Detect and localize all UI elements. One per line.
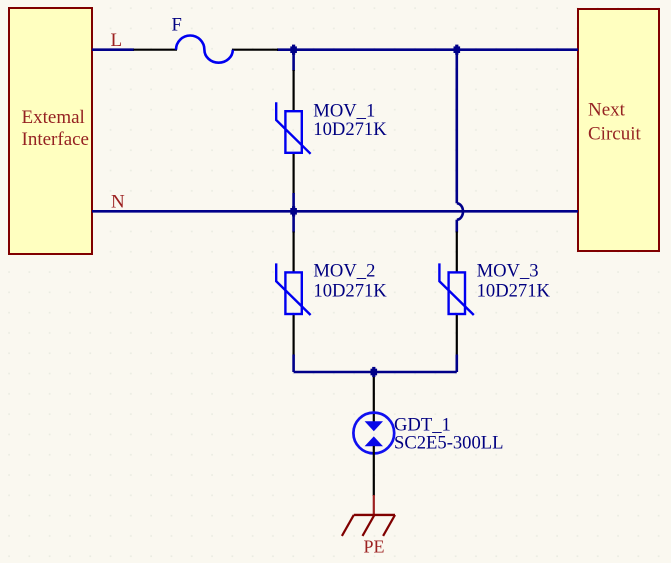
varistor MOV_3 body [439, 263, 473, 315]
vertical wire L-junction to MOV_1 [292, 50, 295, 71]
svg-text:L: L [111, 30, 123, 51]
svg-text:N: N [111, 192, 125, 213]
svg-text:MOV_2: MOV_2 [313, 260, 375, 281]
sheet part: Next Circuit block [578, 9, 659, 251]
GDT_1 pin top [373, 372, 375, 422]
svg-text:Next: Next [588, 100, 626, 121]
power port PE: bar [354, 514, 395, 516]
MOV_3 pin bottom [456, 314, 458, 356]
GDT_1 lower electrode [365, 436, 383, 446]
wire MOV_2 to bottom rail [292, 355, 295, 373]
wire N: left box to Next Circuit [92, 210, 578, 213]
junction (L, MOV_1) [290, 45, 297, 55]
wire MOV_3 to bottom rail [455, 355, 458, 373]
GDT_1 body [353, 413, 394, 454]
svg-text:Interface: Interface [22, 129, 90, 150]
svg-text:PE: PE [364, 536, 385, 556]
wire L: left box to fuse [92, 48, 134, 51]
MOV_2 pin top [293, 232, 295, 274]
svg-text:10D271K: 10D271K [477, 281, 551, 302]
GDT_1 pin bottom [373, 446, 375, 496]
svg-text:F: F [172, 15, 182, 36]
MOV_3 pin top [456, 232, 458, 274]
svg-text:SC2E5-300LL: SC2E5-300LL [394, 433, 504, 454]
sheet part: External Interface block [9, 8, 92, 254]
wire N-junction to MOV_2 [292, 211, 295, 232]
wire L: fuse to Next Circuit [277, 48, 578, 51]
svg-text:10D271K: 10D271K [313, 119, 387, 140]
wire MOV_1 to N [292, 193, 295, 211]
wire hop over N [457, 203, 463, 219]
MOV_1 pin bottom [293, 153, 295, 194]
varistor MOV_1 body [276, 102, 310, 154]
junction (L, MOV_3 branch) [454, 45, 461, 55]
junction (bottom rail, GDT) [371, 367, 378, 377]
vertical wire L-junction down to MOV_3 (with hop over N) [455, 50, 458, 204]
svg-text:MOV_1: MOV_1 [313, 100, 375, 121]
GDT_1 upper electrode [365, 421, 383, 431]
fuse F pins [134, 49, 178, 51]
fuse F body [176, 36, 233, 63]
bottom rail wire [294, 371, 457, 374]
MOV_2 pin bottom [293, 314, 295, 356]
svg-text:Extemal: Extemal [22, 107, 85, 128]
MOV_1 pin top [293, 70, 295, 112]
svg-text:10D271K: 10D271K [313, 281, 387, 302]
junction (N, MOV_1/MOV_2) [290, 206, 297, 216]
power port PE: hatch strokes [342, 515, 354, 536]
power port PE: stem [373, 495, 375, 515]
svg-text:Circuit: Circuit [588, 124, 641, 145]
varistor MOV_2 body [276, 263, 310, 315]
svg-text:MOV_3: MOV_3 [477, 260, 539, 281]
